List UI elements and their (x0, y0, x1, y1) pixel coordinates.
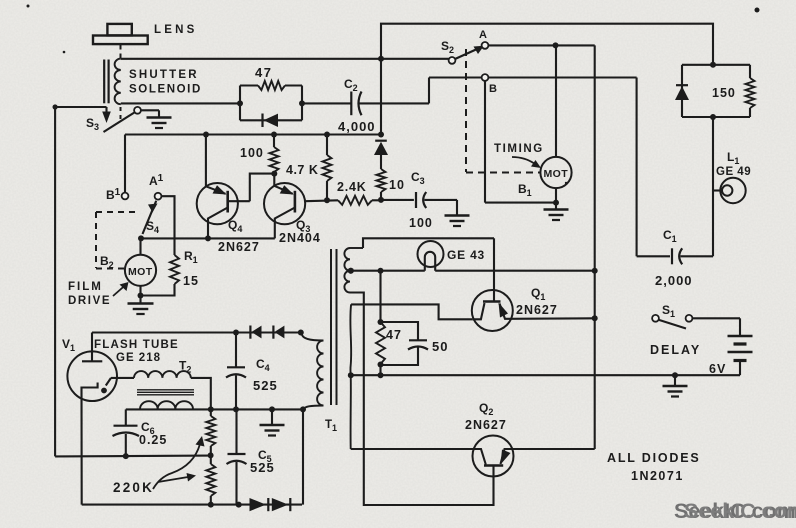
svg-text:2N627: 2N627 (516, 303, 558, 317)
svg-text:47: 47 (255, 65, 272, 80)
svg-text:FILM: FILM (68, 281, 103, 293)
svg-text:100: 100 (240, 146, 264, 160)
svg-text:10: 10 (389, 178, 405, 192)
svg-text:SeekIC.com: SeekIC.com (684, 499, 796, 523)
svg-text:150: 150 (712, 86, 736, 100)
svg-text:A: A (479, 29, 489, 41)
svg-text:2,000: 2,000 (655, 273, 693, 288)
svg-text:MOT: MOT (544, 168, 569, 180)
svg-text:GE 43: GE 43 (447, 248, 485, 262)
svg-text:4,000: 4,000 (338, 119, 376, 134)
svg-text:DRIVE: DRIVE (68, 295, 111, 307)
svg-text:GE 49: GE 49 (716, 166, 751, 178)
svg-text:2.4K: 2.4K (337, 180, 367, 194)
svg-text:MOT: MOT (128, 266, 153, 278)
svg-text:ALL DIODES: ALL DIODES (607, 451, 700, 465)
svg-text:220K: 220K (113, 480, 154, 495)
svg-text:DELAY: DELAY (650, 343, 701, 357)
svg-text:2N404: 2N404 (279, 231, 321, 245)
svg-text:525: 525 (253, 378, 278, 393)
svg-text:FLASH TUBE: FLASH TUBE (94, 339, 179, 351)
svg-text:SOLENOID: SOLENOID (129, 84, 202, 96)
svg-text:50: 50 (432, 339, 448, 354)
svg-text:6V: 6V (709, 362, 726, 376)
svg-text:GE 218: GE 218 (116, 352, 161, 364)
svg-text:1: 1 (332, 423, 337, 433)
svg-text:1N2071: 1N2071 (631, 469, 684, 483)
svg-text:15: 15 (183, 274, 199, 288)
svg-text:LENS: LENS (154, 24, 197, 36)
svg-text:SHUTTER: SHUTTER (129, 69, 199, 81)
svg-text:4.7 K: 4.7 K (286, 163, 318, 177)
svg-text:100: 100 (409, 216, 433, 230)
svg-text:0.25: 0.25 (139, 433, 167, 447)
svg-text:525: 525 (250, 460, 275, 475)
svg-text:2N627: 2N627 (465, 418, 507, 432)
svg-text:T: T (325, 419, 332, 431)
svg-text:2N627: 2N627 (218, 240, 260, 254)
svg-text:47: 47 (386, 328, 402, 342)
svg-text:TIMING: TIMING (494, 143, 544, 155)
svg-text:B: B (489, 83, 499, 95)
